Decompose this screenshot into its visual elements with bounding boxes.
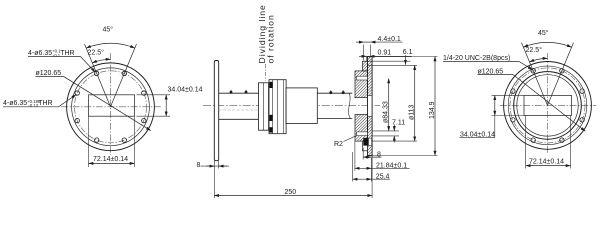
svg-text:134.9: 134.9 xyxy=(429,101,436,119)
dimension 21.84 extension lines xyxy=(355,141,371,181)
right view UNC leader xyxy=(443,62,533,70)
svg-text:250: 250 xyxy=(285,189,297,196)
svg-text:R2: R2 xyxy=(334,141,343,148)
right view 45deg arc xyxy=(523,42,571,47)
left view bolt circle xyxy=(75,71,147,143)
right view dimension 34.04 underline xyxy=(460,137,495,139)
end flange top step xyxy=(363,61,368,71)
svg-text:of rotation: of rotation xyxy=(266,14,276,63)
dimension o113 line xyxy=(414,65,416,141)
dimension 134.9 extension lines xyxy=(372,57,437,156)
hub disc inner line xyxy=(262,83,264,130)
left view dimension 72.14 extension lines xyxy=(89,116,135,167)
dimension 25.4 extension line xyxy=(352,152,354,182)
left view bolt hole right-upper xyxy=(142,91,146,95)
end flange bottom groove xyxy=(357,132,368,136)
left view dimension 72.14 line xyxy=(89,162,135,164)
left view bolt hole left-upper xyxy=(75,91,79,95)
end flange bore edges xyxy=(368,96,373,117)
left view slot rectangle xyxy=(89,95,135,116)
right view bolt hole top-right xyxy=(560,69,564,73)
svg-text:45°: 45° xyxy=(103,26,114,34)
rotor stack inner line 3 xyxy=(282,80,284,134)
dividing line of rotation label xyxy=(257,4,276,63)
svg-text:21.84±0.1: 21.84±0.1 xyxy=(376,163,407,170)
end flange plate xyxy=(368,57,373,156)
left view radial line right 22.5deg xyxy=(111,44,137,107)
right view dimension 34.04 leader tail xyxy=(494,116,496,138)
right view dimension 34.04 line xyxy=(494,95,496,115)
dimension 250 extension lines xyxy=(214,156,372,199)
right view bolt hole bottom-right xyxy=(560,138,564,142)
svg-text:8: 8 xyxy=(197,162,201,169)
left view label1 leader xyxy=(28,57,95,73)
left view 45deg dimension arc xyxy=(86,43,135,48)
left view outer circle xyxy=(67,63,155,151)
hub disc xyxy=(259,83,269,130)
dimension 8 (right) line xyxy=(363,156,381,158)
dimension 134.9 line xyxy=(434,57,436,156)
dimension o113 extension lines xyxy=(368,65,418,141)
right view bolt hole bottom-left xyxy=(531,138,535,142)
connector block on flange xyxy=(364,138,369,145)
dimension 21.84 line xyxy=(355,167,371,169)
left view bolt hole bottom-left xyxy=(95,138,99,142)
right view face circle xyxy=(508,66,587,145)
svg-text:45°: 45° xyxy=(538,29,549,37)
dimension 8 (plate) arrows xyxy=(201,165,230,167)
rotor stack inner line 1 xyxy=(272,80,274,134)
shaft screw dot 2 xyxy=(245,90,248,94)
dividing line (axis mark) xyxy=(265,64,267,81)
left view radial line left 22.5deg xyxy=(85,44,111,107)
dimension 6.1 arrows xyxy=(405,55,407,64)
right view ring circle outer xyxy=(514,72,582,140)
dimension 4.4 extension lines xyxy=(364,45,371,61)
dimension 8 (right) extension line xyxy=(362,148,364,160)
shaft screw dot 3 xyxy=(329,90,332,94)
end flange plate hatch upper xyxy=(368,57,373,96)
dimension 6.1 extension lines xyxy=(368,57,411,62)
middle view center line xyxy=(203,105,380,107)
right view bolt hole right-lower xyxy=(580,118,584,122)
svg-text:72.14±0.14: 72.14±0.14 xyxy=(93,156,128,163)
left view bolt hole left-lower xyxy=(75,118,79,122)
svg-text:25.4: 25.4 xyxy=(376,173,390,180)
svg-text:ø113: ø113 xyxy=(409,104,416,120)
end flange plate hatch lower xyxy=(368,117,373,156)
shaft hidden line xyxy=(219,109,259,111)
right view 22.5deg arc xyxy=(530,58,548,62)
shaft screw dot 4 xyxy=(342,90,345,94)
shaft section 2 top line xyxy=(317,92,352,94)
dimension 4.4 arrows xyxy=(356,41,403,43)
dimension o84.33 line xyxy=(388,79,390,131)
svg-text:34.04±0.14: 34.04±0.14 xyxy=(168,87,203,94)
svg-text:6.1: 6.1 xyxy=(403,49,413,56)
dimension 8 (right) inner arrow xyxy=(367,156,371,158)
right view bolt hole left-upper xyxy=(511,89,515,93)
connector block backing xyxy=(364,138,372,145)
stator flange plate xyxy=(214,61,218,161)
end flange top groove xyxy=(357,76,368,80)
right view horizontal center line xyxy=(500,104,596,106)
rotor ring stack xyxy=(269,80,286,134)
left view horizontal center line xyxy=(61,106,161,108)
svg-text:34.04±0.14: 34.04±0.14 xyxy=(460,131,495,138)
svg-text:22.5°: 22.5° xyxy=(88,49,105,57)
left view bolt hole bottom-right xyxy=(122,138,126,142)
svg-text:8: 8 xyxy=(377,152,381,159)
end flange bottom hub xyxy=(355,114,368,141)
rotor connector block 3 xyxy=(269,127,272,132)
shaft section 1 bottom line xyxy=(219,118,259,120)
shaft break curve xyxy=(348,93,350,118)
svg-text:ø84.33: ø84.33 xyxy=(382,101,389,123)
left view vertical center line xyxy=(110,53,112,155)
right view dimension 72.14 line xyxy=(526,165,571,167)
shaft screw dot 1 xyxy=(230,90,233,94)
dimension 7.11 extension lines xyxy=(372,131,399,136)
left view o120.65 leader xyxy=(36,76,151,130)
dimension 25.4 line xyxy=(353,178,372,180)
end flange top hub xyxy=(355,71,368,98)
svg-text:1/4-20 UNC-2B(8pcs): 1/4-20 UNC-2B(8pcs) xyxy=(443,55,510,62)
right view dimension 34.04 extension lines xyxy=(492,95,525,115)
right view bolt hole left-lower xyxy=(511,118,515,122)
svg-text:0.91: 0.91 xyxy=(378,50,392,57)
left view bolt hole top-right xyxy=(122,71,126,75)
dimension 8 (plate thickness) extension lines xyxy=(214,161,218,169)
right view bolt hole right-upper xyxy=(580,89,584,93)
dimension 7.11 arrows xyxy=(393,125,395,143)
dimension 250 line xyxy=(214,195,372,197)
rotor connector block 2 xyxy=(269,115,272,121)
right view vertical center line xyxy=(547,53,549,153)
right view o120.65 leader xyxy=(478,75,586,132)
right view dimension 72.14 extension lines xyxy=(526,116,571,169)
left view bolt hole right-lower xyxy=(142,118,146,122)
left view inner circle xyxy=(72,68,150,146)
rotor stack inner line 2 xyxy=(276,80,278,134)
right view slot rectangle xyxy=(524,95,572,115)
right view outer circle xyxy=(504,62,592,150)
left view bolt hole top-left xyxy=(95,71,99,75)
left view 22.5deg dimension arc xyxy=(92,59,110,63)
rotor connector block 1 xyxy=(269,82,272,88)
shaft section 2 bottom line xyxy=(317,118,352,120)
R2 leader xyxy=(344,136,357,142)
dimension 0.91 extension stubs xyxy=(366,56,369,62)
main cylinder body xyxy=(286,88,317,124)
svg-text:4.4±0.1: 4.4±0.1 xyxy=(378,36,401,43)
dimension 0.91 arrows xyxy=(359,55,412,57)
svg-text:22.5°: 22.5° xyxy=(526,46,543,54)
left view label2 leader xyxy=(3,95,76,107)
end flange bottom step xyxy=(363,141,368,151)
right view bolt hole top-left xyxy=(531,69,535,73)
right view radial line left xyxy=(522,43,548,106)
right view ring circle inner xyxy=(517,75,578,136)
right view bolt circle xyxy=(510,68,585,143)
shaft section 1 top line xyxy=(219,92,259,94)
right view radial line right xyxy=(548,43,574,106)
left view dimension 34.04 line xyxy=(165,95,167,116)
svg-text:7.11: 7.11 xyxy=(392,119,405,126)
svg-text:72.14±0.14: 72.14±0.14 xyxy=(529,159,564,166)
left view dimension 34.04 extension lines xyxy=(137,95,171,116)
